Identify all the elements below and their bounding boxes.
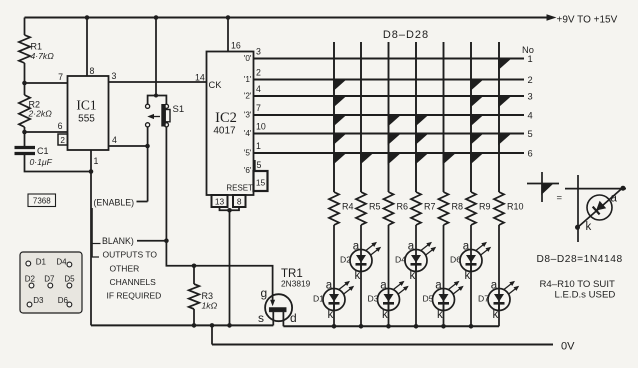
resistor R4 [329,192,339,225]
label 4017 [213,126,236,137]
label C1 [37,146,49,156]
wire matrix column 2 [360,42,362,192]
wire IC1 pin8 [86,18,88,77]
resistor R10 [494,192,504,225]
diode D22 (matrix row 5 col 7) [498,133,512,146]
svg-text:CHANNELS: CHANNELS [110,277,157,287]
label R2 [29,100,41,110]
pin 10 label [256,122,266,132]
pin 8 box [233,195,246,207]
label No column [522,45,534,55]
wire to R3 [193,266,195,284]
wire IC1 pin3 to IC2 CK [109,81,207,83]
node R3 top [192,264,197,269]
diode D19 (matrix row 5 col 3) [388,133,402,146]
wire IC2 output '2' row 3 [254,95,525,97]
wire ENABLE to S1 [137,201,148,203]
diode D14 (matrix row 4 col 1) [333,114,347,127]
label TR1 [281,268,303,280]
svg-text:a: a [435,280,442,292]
output state label '3' [244,111,252,120]
svg-text:D5: D5 [64,274,75,283]
wire IC1 pin6 [25,131,68,133]
label box 7368 [28,194,56,207]
svg-text:a: a [408,241,415,253]
node rail/IC2 pin16 [226,15,231,20]
wire matrix column 6 [470,42,472,192]
svg-text:R3: R3 [202,291,214,301]
diode D25 (matrix row 6 col 3) [388,152,402,165]
wire ground bus left [91,324,273,326]
svg-text:R1: R1 [31,42,43,52]
pin 6 label [58,121,63,131]
svg-text:2: 2 [528,75,533,85]
wire +9V supply rail [25,17,549,19]
svg-text:4017: 4017 [213,126,236,137]
wire IC2 output '1' row 2 [254,79,525,81]
label IC1 [76,98,96,113]
arrowhead +9V rail [547,14,557,21]
op-amp IC1 555 body [68,76,109,150]
svg-text:a: a [380,280,387,292]
svg-text:S1: S1 [173,104,185,115]
svg-text:R10: R10 [507,202,524,212]
output state label '5' [244,149,252,158]
TR1 channel bar [269,308,286,312]
svg-text:+9V TO +15V: +9V TO +15V [557,15,618,26]
svg-text:R8: R8 [452,202,464,212]
label D8-D28 header [383,29,429,41]
svg-text:2: 2 [60,136,65,145]
label OTHER [110,263,140,273]
pin 4 label [256,84,261,94]
resistor R9 [466,192,476,225]
diode D9 (matrix row 2 col 1) [333,79,347,92]
svg-text:'3': '3' [244,111,252,120]
TR1 drain lead [282,312,284,326]
svg-text:D4: D4 [395,254,406,264]
svg-text:D1: D1 [36,258,47,267]
svg-text:2: 2 [256,68,261,78]
label BLANK [102,236,134,246]
svg-text:D8–D28: D8–D28 [383,29,429,41]
wire IC2 output '0' row 1 [254,58,525,60]
svg-text:555: 555 [78,114,95,125]
pin 7 label [256,103,261,113]
svg-text:k: k [586,221,592,233]
TR1 source lead [272,312,274,326]
wire IC2 output '3' row 4 [254,114,525,116]
svg-text:8: 8 [90,66,95,76]
wire matrix column 4 [415,42,417,192]
node BLANK/S1/TR1 gate [164,238,169,243]
diode D12 (matrix row 3 col 6) [470,95,484,108]
svg-text:OTHER: OTHER [110,263,140,273]
node cathode bus D5 [441,324,446,329]
svg-text:14: 14 [195,73,205,83]
label S1 [173,104,185,115]
wire S1 to ENABLE/pin4 [147,127,149,202]
wire IC1 pin1 down [90,150,92,325]
svg-text:'0': '0' [244,54,252,63]
pin 7 label [58,72,63,82]
svg-text:7368: 7368 [33,197,51,206]
legend matrix diode symbol [527,172,559,202]
switch S1 arrow [147,114,160,119]
label CHANNELS [110,277,157,287]
diode D10 (matrix row 2 col 6) [470,79,484,92]
label R4-R10 TO SUIT [540,279,615,290]
label CK [209,80,223,90]
wire IC2 ground down [229,210,231,325]
svg-text:4: 4 [112,135,117,145]
pin 16 label [231,41,241,51]
svg-text:IC2: IC2 [215,110,237,126]
node cathode bus D6 [469,324,474,329]
switch S1 button cap [165,110,170,122]
svg-text:D3: D3 [33,296,44,305]
svg-text:1: 1 [528,54,533,64]
label 555 [78,114,95,125]
svg-text:3: 3 [256,47,261,57]
svg-text:D2: D2 [340,254,351,264]
svg-text:k: k [437,309,443,321]
svg-text:3: 3 [112,71,117,81]
bracket outputs note [92,208,100,257]
svg-text:D7: D7 [478,293,489,303]
output state label '0' [244,54,252,63]
svg-text:IC1: IC1 [76,98,96,113]
label OUTPUTS TO [103,250,158,260]
diode D13 (matrix row 3 col 7) [498,95,512,108]
diode D21 (matrix row 5 col 6) [470,133,484,146]
label R7 [424,202,436,212]
svg-text:6: 6 [528,148,533,158]
svg-text:a: a [491,280,498,292]
svg-text:R5: R5 [369,202,381,212]
wire matrix column 1 [333,42,335,192]
wire node to R2 [24,83,26,95]
switch S1 contact top-left [146,104,150,108]
svg-text:2N3819: 2N3819 [281,279,311,289]
node pin4/enable wire [145,144,150,149]
wire rail to R1 [24,18,26,36]
wire IC2 pin16 [227,18,229,52]
svg-text:R4–R10 TO SUIT: R4–R10 TO SUIT [540,279,615,290]
label g [261,286,268,300]
LED D5 [423,225,464,326]
label row number 6 [528,148,533,158]
node R2/C1/IC1 pins 6-2 [22,130,27,135]
svg-text:D6: D6 [58,296,69,305]
svg-text:k: k [409,270,415,282]
label 0V [561,341,575,353]
svg-text:5: 5 [528,129,533,139]
svg-text:(ENABLE): (ENABLE) [94,197,135,207]
node S1 bracket [154,94,158,98]
label R1 value [31,51,55,61]
wire jog to 0V rail [211,325,213,344]
svg-text:a: a [463,241,470,253]
svg-text:CK: CK [209,80,223,90]
pin 2 box [58,134,68,145]
svg-text:IF REQUIRED: IF REQUIRED [107,291,162,301]
diode D20 (matrix row 5 col 4) [415,133,429,146]
svg-text:L.E.D.s USED: L.E.D.s USED [555,290,616,301]
wire BLANK to node [137,240,166,242]
switch S1 contact bottom-left [146,123,150,127]
wire rail to S1 [155,18,157,96]
svg-text:D5: D5 [423,293,434,303]
svg-text:s: s [258,311,264,325]
label R3 value [202,301,218,311]
label ENABLE [94,197,135,207]
wire R3 to ground bus [193,309,195,325]
label R4 [342,202,354,212]
svg-text:10: 10 [256,122,266,132]
TR1 gate arrow [270,269,275,306]
wire 0V rail [212,344,553,346]
svg-text:k: k [492,309,498,321]
svg-text:a: a [353,241,360,253]
svg-text:=: = [557,193,563,204]
diode D15 (matrix row 4 col 3) [388,114,402,127]
label 2N3819 [281,279,311,289]
wire S1 to BLANK [165,127,167,241]
svg-text:13: 13 [215,197,225,207]
label R1 [31,42,43,52]
svg-text:a: a [326,280,333,292]
node cathode bus D4 [414,324,419,329]
label IC2 [215,110,237,126]
LED D2 [340,225,381,326]
pin 3 label [112,71,117,81]
svg-text:g: g [261,286,268,300]
diode D18 (matrix row 5 col 1) [333,133,347,146]
wire matrix column 5 [443,42,445,192]
wire IC2 output '5' row 6 [254,152,525,154]
output state label '2' [244,92,252,101]
svg-text:5: 5 [257,160,262,170]
capacitor C1 [15,148,36,154]
node R1/R2/IC1 pin7 [22,81,27,86]
svg-text:1kΩ: 1kΩ [202,301,218,311]
label R2 value [28,109,53,119]
label +9V TO +15V [557,15,618,26]
node IC2 ground [227,323,232,328]
svg-text:D2: D2 [25,274,36,283]
label d [290,311,297,325]
node C1/pin1 wire [89,169,94,174]
label row number 4 [528,110,533,120]
svg-text:BLANK): BLANK) [102,236,134,246]
switch S1 contact top-right [164,104,168,108]
switch S1 top bracket [148,96,167,105]
label D8-D28=1N4148 [537,254,623,265]
output state label '1' [244,75,252,84]
svg-text:'1': '1' [244,75,252,84]
wire LED cathode bus [283,325,499,327]
svg-text:15: 15 [256,178,266,188]
svg-text:D8–D28=1N4148: D8–D28=1N4148 [537,254,623,265]
svg-text:d: d [290,311,297,325]
resistor R1 [19,35,30,63]
diode D17 (matrix row 4 col 6) [470,114,484,127]
svg-text:4·7kΩ: 4·7kΩ [31,51,55,61]
svg-text:'6': '6' [244,166,252,175]
LED D1 [313,225,354,326]
label R6 [397,202,409,212]
diode D23 (matrix row 6 col 1) [333,152,347,165]
svg-text:3: 3 [528,91,533,101]
label R10 [507,202,524,212]
svg-text:7: 7 [58,72,63,82]
wire IC1 pin7 [25,82,68,84]
label row number 1 [528,54,533,64]
node rail/IC1 pin8 [85,15,90,20]
pin 8 label [90,66,95,76]
pin 15 reset box [254,171,268,191]
pin 1 label [256,141,261,151]
svg-text:4: 4 [256,84,261,94]
pin 5 to reset stub [254,160,256,171]
svg-text:k: k [382,309,388,321]
diode D8 (matrix row 1 col 7) [498,58,512,71]
wire matrix column 3 [388,42,390,192]
svg-text:0V: 0V [561,341,575,353]
node rail/S1 [154,15,159,20]
svg-text:2·2kΩ: 2·2kΩ [28,109,53,119]
label IF REQUIRED [107,291,162,301]
node 0V jog [210,323,215,328]
diode D28 (matrix row 6 col 6) [470,152,484,165]
LED D4 [395,225,436,326]
diode D11 (matrix row 3 col 1) [333,95,347,108]
output state label '4' [244,129,252,138]
node R3 bottom [192,323,197,328]
svg-text:k: k [327,309,333,321]
wire BLANK node to TR1 gate [166,241,272,269]
svg-text:C1: C1 [37,146,49,156]
svg-text:R4: R4 [342,202,354,212]
svg-text:0·1μF: 0·1μF [30,157,53,167]
wire IC2 output '4' row 5 [254,133,525,135]
pin 13 box [212,195,228,207]
label R9 [479,202,491,212]
wire matrix column 7 [498,42,500,192]
LED D3 [368,225,409,326]
resistor R8 [439,192,449,225]
svg-text:'4': '4' [244,129,252,138]
node cathode bus D2 [359,324,364,329]
svg-text:'2': '2' [244,92,252,101]
label LEDs USED [555,290,616,301]
output state label '6' [244,166,252,175]
wire node to C1 [24,132,26,146]
svg-text:k: k [354,270,360,282]
legend equals sign [557,193,563,204]
label RESET [226,184,253,193]
pin 5 label [257,160,262,170]
label R8 [452,202,464,212]
LED D7 [478,225,519,326]
svg-text:k: k [464,270,470,282]
svg-text:R6: R6 [397,202,409,212]
svg-text:'5': '5' [244,149,252,158]
label row number 5 [528,129,533,139]
label s [258,311,264,325]
resistor R2 [19,95,30,127]
svg-text:D4: D4 [56,258,67,267]
pin 1 label [94,156,99,166]
pin 4 label [112,135,117,145]
switch S1 plunger bar [162,105,165,127]
svg-text:D6: D6 [450,254,461,264]
label C1 value [30,157,53,167]
transistor TR1 body [265,294,292,321]
legend diode symbol [565,175,626,242]
svg-text:6: 6 [58,121,63,131]
svg-text:R9: R9 [479,202,491,212]
resistor R7 [411,192,421,225]
diode D26 (matrix row 6 col 4) [415,152,429,165]
wire R1 to node [24,63,26,83]
svg-text:D3: D3 [368,293,379,303]
node cathode bus D3 [386,324,391,329]
svg-text:D1: D1 [313,293,324,303]
node pins 13-8 ground [227,208,232,213]
pin 3 label [256,47,261,57]
diode D24 (matrix row 6 col 2) [360,152,374,165]
label row number 3 [528,91,533,101]
wire pins 13+8 join [220,207,240,210]
wire IC1 pin4 [109,145,148,147]
label R5 [369,202,381,212]
svg-text:4: 4 [528,110,533,120]
svg-text:RESET: RESET [226,184,253,193]
switch S1 contact bottom-right [164,123,168,127]
label R3 [202,291,214,301]
resistor R6 [384,192,394,225]
diode D16 (matrix row 4 col 4) [415,114,429,127]
svg-text:OUTPUTS TO: OUTPUTS TO [103,250,158,260]
counter IC2 4017 body [207,52,254,196]
wire R2 to node [24,127,26,132]
LED D6 [450,225,491,326]
svg-text:D7: D7 [44,274,55,283]
pin 2 label [256,68,261,78]
resistor R3 [189,284,200,309]
svg-text:1: 1 [256,141,261,151]
wire C1 to ground bus [25,155,92,172]
pin 14 label [195,73,205,83]
svg-text:16: 16 [231,41,241,51]
node cathode bus D1 [332,324,337,329]
resistor R5 [356,192,366,225]
svg-text:1: 1 [94,156,99,166]
diode D27 (matrix row 6 col 5) [443,152,457,165]
svg-text:a: a [611,193,618,205]
svg-text:R7: R7 [424,202,436,212]
LED layout panel [20,252,82,313]
svg-text:8: 8 [237,197,242,207]
svg-text:7: 7 [256,103,261,113]
label row number 2 [528,75,533,85]
